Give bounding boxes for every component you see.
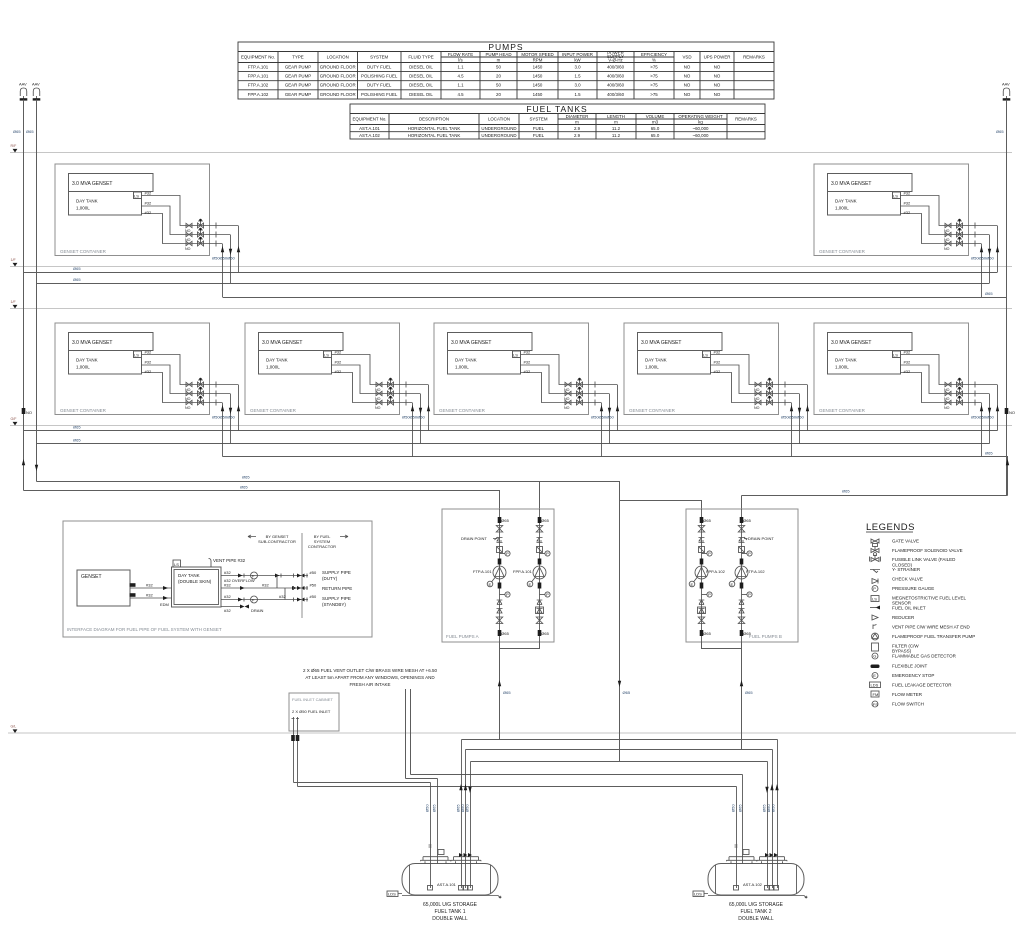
svg-text:11.2: 11.2 xyxy=(612,133,621,138)
genset container M1 xyxy=(55,323,238,415)
vent line to tank 2 xyxy=(411,774,743,776)
svg-text:FLEXIBLE JOINT: FLEXIBLE JOINT xyxy=(892,664,928,669)
svg-text:EQUIPMENT No.: EQUIPMENT No. xyxy=(241,55,275,60)
svg-text:#50: #50 xyxy=(310,594,317,599)
svg-text:Ø65: Ø65 xyxy=(73,277,81,282)
svg-text:NO: NO xyxy=(714,74,721,79)
pump B discharge join xyxy=(702,642,742,750)
svg-text:LEGENDS: LEGENDS xyxy=(866,522,915,533)
svg-text:FLOW METER: FLOW METER xyxy=(892,692,923,697)
svg-text:400/3/60: 400/3/60 xyxy=(607,83,625,88)
level line G/F xyxy=(10,417,1012,426)
svg-text:#32: #32 xyxy=(224,594,231,599)
svg-text:50: 50 xyxy=(496,83,501,88)
svg-text:FUEL TANK 2: FUEL TANK 2 xyxy=(740,909,771,915)
pump run FTP.A.101 xyxy=(487,509,510,642)
svg-text:FTP.A.102: FTP.A.102 xyxy=(746,569,765,574)
svg-text:FLUID TYPE: FLUID TYPE xyxy=(408,55,433,60)
svg-text:DOUBLE WALL: DOUBLE WALL xyxy=(738,916,774,922)
svg-text:G/F: G/F xyxy=(11,417,18,421)
pump box A xyxy=(442,509,554,642)
svg-text:FLAMEPROOF FUEL TRANSFER PUMP: FLAMEPROOF FUEL TRANSFER PUMP xyxy=(892,634,975,639)
svg-text:#32: #32 xyxy=(146,593,153,598)
svg-text:FS: FS xyxy=(873,702,878,707)
svg-text:FUEL OIL INLET: FUEL OIL INLET xyxy=(892,606,926,611)
svg-text:DUTY FUEL: DUTY FUEL xyxy=(367,65,392,70)
svg-text:LS: LS xyxy=(872,597,877,602)
svg-text:MOTOR SPEED: MOTOR SPEED xyxy=(521,52,553,57)
genset container M3 xyxy=(434,323,617,415)
svg-text:PRESSURE GAUGE: PRESSURE GAUGE xyxy=(892,586,934,591)
svg-text:FTP.A.102: FTP.A.102 xyxy=(248,83,269,88)
return header to tanks xyxy=(471,761,768,763)
svg-text:UPS POWER: UPS POWER xyxy=(704,55,731,60)
svg-text:GEAR PUMP: GEAR PUMP xyxy=(285,92,311,97)
header 1F-b xyxy=(37,283,990,285)
svg-text:NO: NO xyxy=(714,65,721,70)
svg-text:50: 50 xyxy=(496,65,501,70)
svg-text:FUSIBLE LINK VALVE (FAILED: FUSIBLE LINK VALVE (FAILED xyxy=(892,557,956,562)
vent pipe xyxy=(209,559,212,568)
svg-text:Ø50Ø50Ø50: Ø50Ø50Ø50 xyxy=(971,256,994,261)
arrow up right riser xyxy=(1006,459,1009,465)
svg-text:DUTY FUEL: DUTY FUEL xyxy=(367,83,392,88)
svg-text:RPM: RPM xyxy=(533,58,543,63)
svg-text:GEAR PUMP: GEAR PUMP xyxy=(285,74,311,79)
filter on FPP.A.102 xyxy=(698,607,706,614)
svg-text:NO: NO xyxy=(684,92,691,97)
svg-text:R/F: R/F xyxy=(11,144,18,148)
svg-text:>75: >75 xyxy=(650,83,658,88)
svg-text:FUEL TANK 1: FUEL TANK 1 xyxy=(434,909,465,915)
svg-text:#32: #32 xyxy=(146,583,153,588)
svg-text:Ø65: Ø65 xyxy=(432,804,437,812)
tank 2 check symbols xyxy=(765,853,778,857)
svg-text:Ø65: Ø65 xyxy=(842,489,850,494)
svg-text:OPERATING WEIGHT: OPERATING WEIGHT xyxy=(678,114,723,119)
svg-text:3.0: 3.0 xyxy=(574,83,581,88)
svg-text:FUEL PUMPS B: FUEL PUMPS B xyxy=(749,634,782,639)
svg-text:DIESEL OIL: DIESEL OIL xyxy=(409,92,433,97)
svg-text:GROUND FLOOR: GROUND FLOOR xyxy=(320,83,356,88)
svg-text:65.0: 65.0 xyxy=(651,126,660,131)
container M3 drops xyxy=(602,385,618,457)
svg-text:400/3/60: 400/3/60 xyxy=(607,65,625,70)
suction header to tanks (pump A) xyxy=(462,739,778,741)
svg-text:m: m xyxy=(497,58,501,63)
svg-text:FUEL INLET CABINET: FUEL INLET CABINET xyxy=(292,697,333,702)
svg-text:Ø50Ø50Ø50: Ø50Ø50Ø50 xyxy=(971,415,994,420)
svg-text:20: 20 xyxy=(496,92,501,97)
AAV 1 xyxy=(19,82,27,100)
pump run FTP.A.102 xyxy=(729,509,752,642)
genset-day tank pipes xyxy=(130,588,172,598)
arrow up on riser 1 xyxy=(22,459,25,465)
supply standby pipe xyxy=(221,599,308,601)
svg-text:INPUT POWER: INPUT POWER xyxy=(562,52,593,57)
svg-text:m: m xyxy=(614,120,618,125)
header GF-c xyxy=(223,457,1008,496)
svg-text:CONTRACTOR: CONTRACTOR xyxy=(308,544,336,549)
svg-text:UNDERGROUND: UNDERGROUND xyxy=(481,133,516,138)
tank 1 check symbols xyxy=(459,853,472,857)
pump run FPP.A.101 xyxy=(527,509,550,642)
svg-text:NO: NO xyxy=(714,92,721,97)
svg-text:FRESH AIR INTAKE: FRESH AIR INTAKE xyxy=(350,682,391,687)
svg-text:DAY TANK: DAY TANK xyxy=(178,573,200,578)
svg-text:3.0: 3.0 xyxy=(574,65,581,70)
svg-text:FTP.A.101: FTP.A.101 xyxy=(248,65,269,70)
svg-text:4.5: 4.5 xyxy=(457,92,464,97)
svg-text:#32: #32 xyxy=(224,570,231,575)
svg-text:Ø50: Ø50 xyxy=(771,804,776,812)
svg-text:#50: #50 xyxy=(310,570,317,575)
header 1F-c xyxy=(223,297,1007,299)
svg-text:400/3/60: 400/3/60 xyxy=(607,74,625,79)
svg-text:Ø65: Ø65 xyxy=(73,438,81,443)
svg-text:SYSTEM: SYSTEM xyxy=(529,117,547,122)
fill line to tank 2 xyxy=(298,786,737,788)
svg-text:SUB-CONTRACTOR: SUB-CONTRACTOR xyxy=(258,539,296,544)
svg-text:SUPPLY PIPE: SUPPLY PIPE xyxy=(322,570,351,575)
svg-text:E: E xyxy=(873,673,876,678)
svg-text:AST.A.101: AST.A.101 xyxy=(437,882,457,887)
tank 2 body xyxy=(708,857,804,895)
svg-text:FUEL PUMPS A: FUEL PUMPS A xyxy=(446,634,479,639)
genset container T1 xyxy=(55,164,238,256)
svg-text:#32: #32 xyxy=(279,594,286,599)
svg-text:EDM: EDM xyxy=(160,602,169,607)
svg-text:m: m xyxy=(575,120,579,125)
vent outlet pipe 1 xyxy=(405,689,407,779)
svg-text:#32: #32 xyxy=(262,583,269,588)
header GF-a xyxy=(24,430,998,432)
svg-text:65,000L U/G STORAGE: 65,000L U/G STORAGE xyxy=(729,902,784,908)
pump A discharge join xyxy=(500,642,540,740)
svg-text:(DOUBLE SKIN): (DOUBLE SKIN) xyxy=(178,579,212,584)
svg-text:Ø65: Ø65 xyxy=(240,485,248,490)
svg-text:GROUND FLOOR: GROUND FLOOR xyxy=(320,65,356,70)
svg-text:FTP.A.101: FTP.A.101 xyxy=(473,569,492,574)
svg-text:CHECK VALVE: CHECK VALVE xyxy=(892,577,923,582)
svg-text:FM: FM xyxy=(873,692,879,697)
svg-text:Ø65: Ø65 xyxy=(623,690,631,695)
svg-text:FPP.A.101: FPP.A.101 xyxy=(248,74,269,79)
genset container M2 xyxy=(245,323,428,415)
svg-text:DIAMETER: DIAMETER xyxy=(566,114,589,119)
vent riser left 1 xyxy=(23,100,25,491)
svg-text:PUMP HEAD: PUMP HEAD xyxy=(485,52,511,57)
return drop to tanks xyxy=(619,501,621,762)
vent riser left 2 xyxy=(36,100,38,482)
svg-text:Ø65: Ø65 xyxy=(242,475,250,480)
fill line to tank 1 xyxy=(294,782,431,784)
svg-text:AST.A.101: AST.A.101 xyxy=(359,126,380,131)
header GF-d to pumps xyxy=(37,482,702,510)
svg-text:1450: 1450 xyxy=(533,83,543,88)
header GF-e to pump A xyxy=(24,491,500,510)
svg-text:DOUBLE WALL: DOUBLE WALL xyxy=(432,916,468,922)
container T1 drops xyxy=(223,226,239,298)
svg-text:HORIZONTAL FUEL TANK: HORIZONTAL FUEL TANK xyxy=(408,126,461,131)
svg-text:Ø65: Ø65 xyxy=(13,129,21,134)
svg-text:PUMPS: PUMPS xyxy=(488,42,523,52)
pump A suction arrow xyxy=(498,680,501,686)
container T2 drops xyxy=(982,226,998,298)
svg-text:1450: 1450 xyxy=(533,92,543,97)
day tank (double skin) xyxy=(172,567,222,607)
svg-text:Y- STRAINER: Y- STRAINER xyxy=(892,567,921,572)
svg-text:>75: >75 xyxy=(650,65,658,70)
svg-text:1.5: 1.5 xyxy=(574,92,581,97)
level line mid xyxy=(10,300,1012,309)
svg-text:LOCATION: LOCATION xyxy=(488,117,510,122)
svg-text:GROUND FLOOR: GROUND FLOOR xyxy=(320,92,356,97)
svg-text:m3: m3 xyxy=(652,120,659,125)
legend symbols xyxy=(871,539,879,543)
svg-text:Ø50Ø50Ø50: Ø50Ø50Ø50 xyxy=(402,415,425,420)
svg-text:EMERGENCY STOP: EMERGENCY STOP xyxy=(892,673,934,678)
header GF-b xyxy=(37,443,990,445)
svg-text:Ø65: Ø65 xyxy=(73,266,81,271)
svg-text:FUEL: FUEL xyxy=(533,126,545,131)
container M5 drops xyxy=(982,385,998,457)
svg-text:DIESEL OIL: DIESEL OIL xyxy=(409,83,433,88)
AAV 3 xyxy=(1002,82,1010,100)
svg-text:POLISHING FUEL: POLISHING FUEL xyxy=(361,74,398,79)
svg-text:Ø65: Ø65 xyxy=(996,129,1004,134)
svg-text:Ø50: Ø50 xyxy=(425,804,430,812)
tank 1 pipes xyxy=(431,740,471,889)
flexible joint w NO on riser 1 xyxy=(22,408,26,414)
svg-text:Ø50Ø50Ø50: Ø50Ø50Ø50 xyxy=(591,415,614,420)
return pipe xyxy=(221,587,308,589)
svg-text:kg: kg xyxy=(698,120,703,125)
svg-text:DIESEL OIL: DIESEL OIL xyxy=(409,74,433,79)
genset container M5 xyxy=(814,323,997,415)
svg-text:#32: #32 xyxy=(224,583,231,588)
header 1F-a xyxy=(24,272,998,274)
level line R/F xyxy=(10,144,1012,153)
svg-text:Ø65: Ø65 xyxy=(503,690,511,695)
svg-text:VENT PIPE #32: VENT PIPE #32 xyxy=(213,558,246,563)
supply duty pipe xyxy=(221,575,308,577)
svg-text:DRAIN: DRAIN xyxy=(251,608,264,613)
svg-text:REDUCER: REDUCER xyxy=(892,615,915,620)
svg-text:Ø65: Ø65 xyxy=(73,425,81,430)
svg-text:VENT PIPE C/W WIRE MESH AT END: VENT PIPE C/W WIRE MESH AT END xyxy=(892,625,971,630)
LS box on day tank xyxy=(173,560,181,567)
genset container M4 xyxy=(624,323,807,415)
tank 2 SB box xyxy=(743,850,749,855)
svg-text:Ø65: Ø65 xyxy=(985,451,993,456)
interface valve clusters at contractor boundary xyxy=(294,574,308,602)
pump box B xyxy=(686,509,798,642)
svg-text:UNDERGROUND: UNDERGROUND xyxy=(481,126,516,131)
tank 1 SB box xyxy=(438,850,444,855)
svg-text:V-Ø-Hz: V-Ø-Hz xyxy=(608,58,622,63)
svg-text:EQUIPMENT No.: EQUIPMENT No. xyxy=(352,117,386,122)
svg-text:NO: NO xyxy=(684,74,691,79)
svg-text:Ø50Ø50Ø50: Ø50Ø50Ø50 xyxy=(212,415,235,420)
svg-text:65.0: 65.0 xyxy=(651,133,660,138)
svg-text:REMARKS: REMARKS xyxy=(735,117,757,122)
drain pipe xyxy=(221,606,240,608)
svg-text:LDS: LDS xyxy=(871,683,879,688)
header GF-f to pump B xyxy=(742,495,1008,497)
container M1 drops xyxy=(223,385,239,457)
svg-text:NO: NO xyxy=(684,83,691,88)
svg-text:Ø50Ø50Ø50: Ø50Ø50Ø50 xyxy=(781,415,804,420)
svg-text:1.1: 1.1 xyxy=(457,65,464,70)
svg-text:POLISHING FUEL: POLISHING FUEL xyxy=(361,92,398,97)
filter on FPP.A.101 xyxy=(536,607,544,614)
svg-text:2.9: 2.9 xyxy=(574,133,581,138)
svg-text:AST.A.102: AST.A.102 xyxy=(359,133,380,138)
svg-text:Ø50Ø50Ø50: Ø50Ø50Ø50 xyxy=(212,256,235,261)
svg-text:AST.A.102: AST.A.102 xyxy=(743,882,763,887)
svg-text:LENGTH: LENGTH xyxy=(607,114,625,119)
svg-text:Ø65: Ø65 xyxy=(26,129,34,134)
svg-text:20: 20 xyxy=(496,74,501,79)
vent outlet pipe 2 xyxy=(410,689,412,775)
svg-text:1.5: 1.5 xyxy=(574,74,581,79)
container M4 drops xyxy=(792,385,808,457)
svg-text:REMARKS: REMARKS xyxy=(743,55,765,60)
svg-text:SYSTEM: SYSTEM xyxy=(370,55,388,60)
container M2 drops xyxy=(413,385,429,457)
svg-text:NO: NO xyxy=(1009,410,1015,415)
contractor divider xyxy=(301,533,303,618)
svg-text:#50: #50 xyxy=(310,583,317,588)
pump run FPP.A.102 xyxy=(689,509,712,642)
vent line to tank 1 xyxy=(406,778,438,780)
svg-text:Ø50: Ø50 xyxy=(731,804,736,812)
svg-text:DIESEL OIL: DIESEL OIL xyxy=(409,65,433,70)
svg-text:LDS: LDS xyxy=(388,892,396,897)
svg-text:AT LEAST 5m APART FROM ANY WIN: AT LEAST 5m APART FROM ANY WINDOWS, OPEN… xyxy=(305,675,435,680)
svg-text:4.5: 4.5 xyxy=(457,74,464,79)
tank 1 flow arrows xyxy=(459,784,462,790)
svg-text:2 X Ø50 FUEL INLET: 2 X Ø50 FUEL INLET xyxy=(292,709,331,714)
level line 1/F upper xyxy=(10,258,1012,267)
svg-text:(STANDBY): (STANDBY) xyxy=(322,602,346,607)
svg-text:1.1: 1.1 xyxy=(457,83,464,88)
AAV 2 xyxy=(32,82,40,100)
svg-text:P: P xyxy=(873,586,876,591)
svg-text:VOLUME: VOLUME xyxy=(646,114,665,119)
svg-text:G: G xyxy=(873,654,876,659)
svg-text:kW: kW xyxy=(574,58,581,63)
svg-text:FPP.A.101: FPP.A.101 xyxy=(513,569,533,574)
arrow down on riser 2 xyxy=(35,465,38,471)
svg-text:%: % xyxy=(652,58,656,63)
svg-text:2.9: 2.9 xyxy=(574,126,581,131)
svg-text:Ø65: Ø65 xyxy=(738,804,743,812)
svg-text:>75: >75 xyxy=(650,74,658,79)
svg-text:INTERFACE DIAGRAM FOR FUEL PIP: INTERFACE DIAGRAM FOR FUEL PIPE OF FUEL … xyxy=(67,627,222,632)
svg-text:LS: LS xyxy=(174,562,179,567)
svg-text:LDS: LDS xyxy=(694,892,702,897)
svg-text:NO: NO xyxy=(684,65,691,70)
svg-text:FLOW RATE: FLOW RATE xyxy=(448,52,473,57)
svg-text:400/3/60: 400/3/60 xyxy=(607,92,625,97)
svg-text:FUEL TANKS: FUEL TANKS xyxy=(526,104,587,114)
vent riser right xyxy=(1006,100,1008,496)
genset box xyxy=(77,570,130,606)
svg-text:~60,000: ~60,000 xyxy=(693,133,710,138)
svg-text:FPP.A.102: FPP.A.102 xyxy=(706,569,726,574)
svg-text:NO: NO xyxy=(714,83,721,88)
svg-text:Ø50: Ø50 xyxy=(465,804,470,812)
svg-text:DRAIN POINT: DRAIN POINT xyxy=(748,536,774,541)
svg-text:FLAMMABLE GAS DETECTOR: FLAMMABLE GAS DETECTOR xyxy=(892,654,957,659)
pump B right feed xyxy=(741,496,743,510)
branch to pump A right run xyxy=(539,481,541,509)
svg-text:DESCRIPTION: DESCRIPTION xyxy=(419,117,449,122)
svg-text:GENSET: GENSET xyxy=(81,574,102,580)
svg-text:FLOW SWITCH: FLOW SWITCH xyxy=(892,702,924,707)
svg-text:FLAMEPROOF SOLENOID VALVE: FLAMEPROOF SOLENOID VALVE xyxy=(892,548,963,553)
tank 1 LDS xyxy=(387,891,398,897)
flexible joint w NO on riser right xyxy=(1005,408,1009,414)
svg-text:FUEL LEAKAGE DETECTOR: FUEL LEAKAGE DETECTOR xyxy=(892,683,952,688)
svg-text:(DUTY): (DUTY) xyxy=(322,576,338,581)
svg-text:FPP.A.102: FPP.A.102 xyxy=(248,92,269,97)
tank 2 LDS xyxy=(693,891,704,897)
svg-text:Ø65: Ø65 xyxy=(745,690,753,695)
tank 1 body xyxy=(402,857,498,895)
tank 2 flow arrows xyxy=(765,787,768,793)
svg-text:RETURN PIPE: RETURN PIPE xyxy=(322,586,352,591)
svg-text:GROUND FLOOR: GROUND FLOOR xyxy=(320,74,356,79)
pump B suction arrow xyxy=(740,680,743,686)
return arrow xyxy=(618,681,621,687)
svg-text:LOCATION: LOCATION xyxy=(327,55,349,60)
svg-text:HORIZONTAL FUEL TANK: HORIZONTAL FUEL TANK xyxy=(408,133,461,138)
svg-text:NO: NO xyxy=(26,410,32,415)
svg-text:1/F: 1/F xyxy=(11,258,17,262)
svg-text:2 X Ø65 FUEL VENT OUTLET C/W B: 2 X Ø65 FUEL VENT OUTLET C/W BRASS WIRE … xyxy=(303,668,437,673)
svg-text:G/L: G/L xyxy=(11,725,17,729)
svg-text:DRAIN POINT: DRAIN POINT xyxy=(461,536,487,541)
svg-text:>75: >75 xyxy=(650,92,658,97)
genset container T2 xyxy=(814,164,997,256)
svg-text:TYPE: TYPE xyxy=(292,55,304,60)
ground level line xyxy=(8,725,1016,734)
svg-text:FUEL: FUEL xyxy=(533,133,545,138)
tank 2 pipes xyxy=(737,740,778,889)
svg-text:#32: #32 xyxy=(224,608,231,613)
svg-text:1450: 1450 xyxy=(533,65,543,70)
suction header to tanks (pump B) xyxy=(466,749,773,751)
svg-text:GATE VALVE: GATE VALVE xyxy=(892,539,919,544)
svg-text:GEAR PUMP: GEAR PUMP xyxy=(285,65,311,70)
svg-text:EFFICIENCY: EFFICIENCY xyxy=(641,52,667,57)
svg-text:1/F: 1/F xyxy=(11,300,17,304)
svg-text:SUPPLY PIPE: SUPPLY PIPE xyxy=(322,596,351,601)
svg-text:65,000L U/G STORAGE: 65,000L U/G STORAGE xyxy=(423,902,478,908)
svg-text:GEAR PUMP: GEAR PUMP xyxy=(285,83,311,88)
svg-text:VSD: VSD xyxy=(682,55,691,60)
svg-text:~60,000: ~60,000 xyxy=(693,126,710,131)
svg-text:1450: 1450 xyxy=(533,74,543,79)
svg-text:Ø65: Ø65 xyxy=(985,291,993,296)
branch verticals xyxy=(277,576,285,600)
svg-text:11.2: 11.2 xyxy=(612,126,621,131)
